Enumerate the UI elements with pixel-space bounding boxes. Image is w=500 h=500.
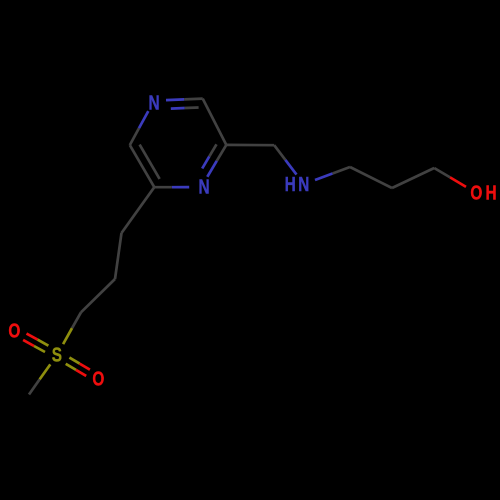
svg-text:N: N	[148, 92, 159, 114]
svg-text:H: H	[485, 181, 496, 203]
svg-text:S: S	[52, 343, 62, 365]
svg-text:O: O	[92, 368, 104, 390]
svg-text:O: O	[8, 320, 20, 342]
svg-text:O: O	[470, 182, 482, 204]
svg-text:N: N	[198, 176, 209, 198]
svg-text:N: N	[298, 173, 309, 195]
svg-text:H: H	[285, 173, 296, 195]
